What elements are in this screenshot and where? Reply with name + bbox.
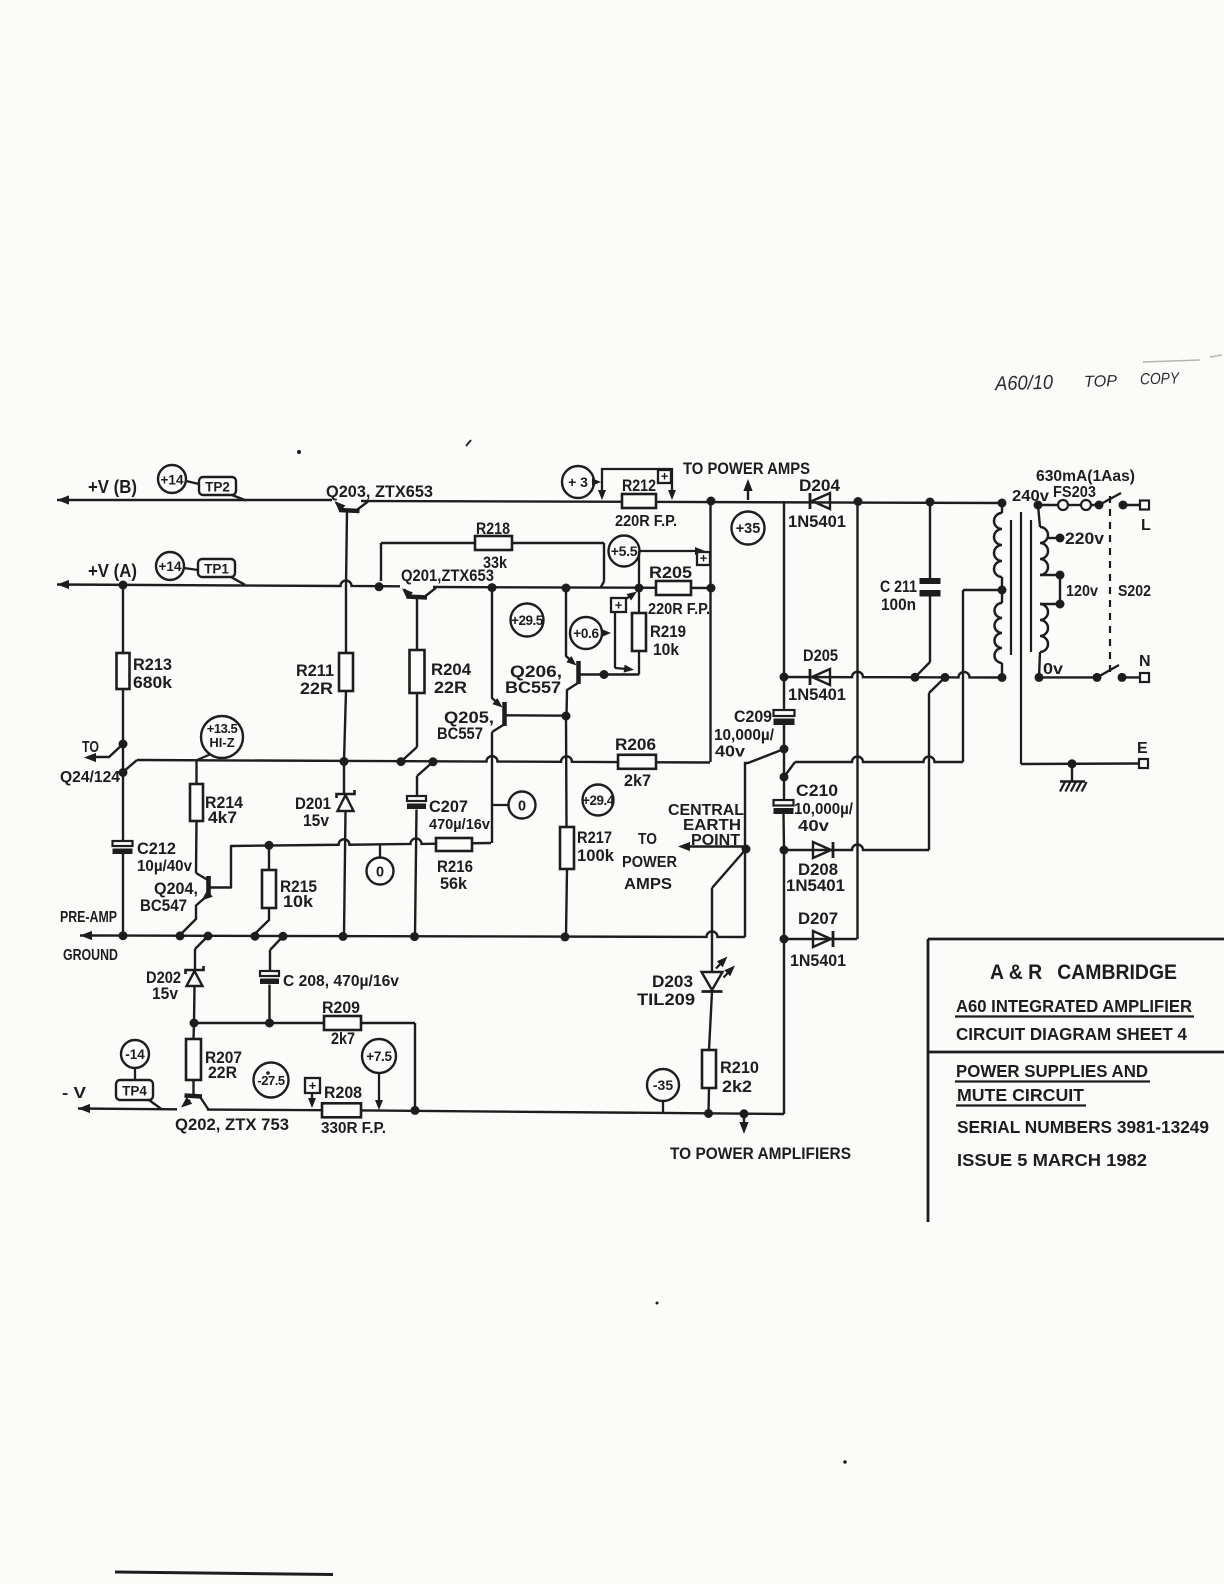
svg-text:100k: 100k	[577, 846, 615, 865]
svg-text:10k: 10k	[283, 892, 314, 911]
svg-text:+: +	[661, 469, 669, 484]
svg-text:+ 3: + 3	[568, 474, 588, 490]
svg-text:Q203, ZTX653: Q203, ZTX653	[326, 482, 433, 501]
svg-text:GROUND: GROUND	[63, 947, 118, 964]
svg-text:15v: 15v	[303, 811, 329, 830]
svg-text:+: +	[700, 551, 708, 566]
svg-text:R219: R219	[650, 622, 686, 641]
svg-text:1N5401: 1N5401	[788, 685, 846, 704]
svg-text:C 208, 470µ/16v: C 208, 470µ/16v	[283, 973, 399, 990]
svg-text:TOP: TOP	[1084, 373, 1118, 391]
svg-text:1N5401: 1N5401	[788, 512, 846, 531]
svg-text:BC557: BC557	[437, 724, 483, 743]
svg-text:+7.5: +7.5	[366, 1049, 392, 1064]
svg-text:-27.5: -27.5	[257, 1073, 284, 1088]
svg-text:10,000µ/: 10,000µ/	[714, 727, 775, 744]
svg-text:POWER: POWER	[622, 854, 677, 871]
svg-text:R213: R213	[133, 655, 172, 674]
svg-text:56k: 56k	[440, 874, 468, 893]
svg-text:40v: 40v	[715, 744, 745, 761]
svg-text:40v: 40v	[798, 818, 829, 835]
svg-text:TO: TO	[82, 739, 99, 756]
svg-text:Q201,ZTX653: Q201,ZTX653	[401, 566, 494, 585]
svg-text:A & R CAMBRIDGE: A & R CAMBRIDGE	[990, 961, 1177, 984]
svg-text:D203: D203	[652, 972, 693, 991]
svg-text:+29.4: +29.4	[582, 793, 615, 808]
svg-text:2k7: 2k7	[624, 771, 651, 790]
svg-text:- V: - V	[62, 1085, 86, 1102]
svg-text:C209: C209	[734, 707, 772, 726]
svg-text:CIRCUIT DIAGRAM SHEET 4: CIRCUIT DIAGRAM SHEET 4	[956, 1024, 1187, 1044]
svg-text:2k2: 2k2	[722, 1077, 752, 1096]
svg-text:220R F.P.: 220R F.P.	[615, 513, 677, 530]
svg-text:HI-Z: HI-Z	[209, 735, 234, 750]
svg-text:POINT: POINT	[691, 832, 741, 849]
svg-text:BC547: BC547	[140, 896, 187, 915]
svg-text:22R: 22R	[300, 679, 333, 698]
svg-text:PRE-AMP: PRE-AMP	[60, 909, 117, 926]
svg-text:TIL209: TIL209	[637, 990, 695, 1009]
svg-text:220R F.P.: 220R F.P.	[648, 601, 710, 618]
svg-text:R209: R209	[322, 998, 360, 1017]
svg-text:S202: S202	[1118, 583, 1151, 600]
svg-text:+5.5: +5.5	[611, 543, 638, 559]
svg-text:1N5401: 1N5401	[790, 951, 846, 970]
svg-text:Q24/124: Q24/124	[60, 769, 120, 786]
svg-text:BC557: BC557	[505, 678, 561, 697]
svg-text:TP1: TP1	[204, 562, 229, 577]
svg-text:R205: R205	[649, 563, 692, 582]
svg-text:680k: 680k	[133, 673, 173, 692]
svg-text:D204: D204	[799, 476, 841, 495]
svg-text:POWER SUPPLIES AND: POWER SUPPLIES AND	[956, 1061, 1148, 1081]
svg-text:+29.5: +29.5	[511, 613, 544, 628]
svg-text:630mA(1Aas): 630mA(1Aas)	[1036, 468, 1135, 485]
svg-text:10µ/40v: 10µ/40v	[137, 858, 192, 875]
svg-text:TO: TO	[638, 831, 657, 848]
svg-text:COPY: COPY	[1140, 370, 1181, 388]
svg-text:+: +	[309, 1078, 317, 1093]
svg-text:470µ/16v: 470µ/16v	[429, 816, 491, 833]
svg-text:+0.6: +0.6	[573, 626, 599, 641]
svg-text:FS203: FS203	[1053, 484, 1096, 501]
svg-text:10k: 10k	[653, 640, 679, 659]
svg-text:-14: -14	[125, 1047, 145, 1062]
svg-text:R211: R211	[296, 661, 334, 680]
svg-text:0v: 0v	[1043, 661, 1063, 678]
svg-text:R212: R212	[622, 476, 656, 495]
svg-text:E: E	[1137, 740, 1148, 757]
svg-text:R206: R206	[615, 735, 656, 754]
svg-text:D205: D205	[803, 646, 838, 665]
svg-text:-35: -35	[653, 1077, 673, 1093]
svg-text:AMPS: AMPS	[624, 876, 672, 893]
svg-text:TP2: TP2	[205, 480, 230, 495]
svg-text:A60 INTEGRATED AMPLIFIER: A60 INTEGRATED AMPLIFIER	[956, 996, 1192, 1016]
svg-text:0: 0	[376, 865, 384, 881]
svg-text:22R: 22R	[208, 1063, 237, 1082]
svg-text:R208: R208	[324, 1083, 362, 1102]
svg-text:ISSUE 5 MARCH 1982: ISSUE 5 MARCH 1982	[957, 1150, 1147, 1170]
svg-text:100n: 100n	[881, 595, 916, 614]
svg-text:33k: 33k	[483, 553, 507, 572]
svg-text:+V (B): +V (B)	[88, 477, 137, 497]
svg-text:R218: R218	[476, 519, 510, 538]
svg-text:C212: C212	[137, 839, 176, 858]
svg-text:SERIAL NUMBERS 3981-13249: SERIAL NUMBERS 3981-13249	[957, 1117, 1209, 1137]
svg-text:C210: C210	[796, 781, 838, 800]
svg-text:330R F.P.: 330R F.P.	[321, 1120, 386, 1137]
svg-text:R204: R204	[431, 660, 472, 679]
svg-text:TO POWER AMPS: TO POWER AMPS	[683, 460, 810, 478]
svg-text:MUTE CIRCUIT: MUTE CIRCUIT	[957, 1085, 1084, 1105]
svg-text:120v: 120v	[1066, 583, 1098, 600]
svg-text:C207: C207	[429, 797, 468, 816]
svg-text:TO POWER AMPLIFIERS: TO POWER AMPLIFIERS	[670, 1145, 851, 1163]
svg-text:D207: D207	[798, 909, 838, 928]
svg-text:L: L	[1141, 517, 1151, 534]
svg-text:A60/10: A60/10	[994, 372, 1053, 396]
svg-text:240v: 240v	[1012, 488, 1049, 505]
svg-text:N: N	[1139, 653, 1151, 670]
svg-text:TP4: TP4	[122, 1084, 147, 1099]
svg-text:4k7: 4k7	[208, 808, 237, 827]
svg-text:+: +	[615, 598, 623, 613]
svg-text:1N5401: 1N5401	[786, 876, 845, 895]
svg-text:22R: 22R	[434, 678, 467, 697]
svg-text:0: 0	[518, 799, 526, 815]
svg-text:R210: R210	[720, 1058, 759, 1077]
svg-text:+35: +35	[736, 521, 761, 537]
svg-text:+14: +14	[161, 473, 184, 488]
svg-text:+14: +14	[159, 559, 182, 574]
svg-text:C 211: C 211	[880, 577, 917, 596]
svg-text:R217: R217	[577, 828, 612, 847]
svg-text:Q202, ZTX 753: Q202, ZTX 753	[175, 1115, 289, 1134]
svg-text:+V (A): +V (A)	[88, 561, 137, 581]
svg-text:2k7: 2k7	[331, 1029, 355, 1048]
svg-text:+13.5: +13.5	[207, 721, 238, 736]
svg-text:220v: 220v	[1065, 530, 1105, 548]
svg-text:10,000µ/: 10,000µ/	[794, 801, 854, 818]
svg-text:15v: 15v	[152, 984, 178, 1003]
